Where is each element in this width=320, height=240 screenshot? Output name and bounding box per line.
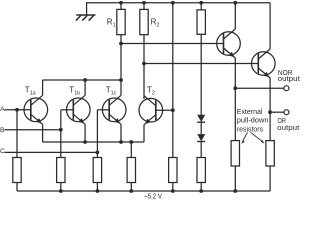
resistor RE (emitter current source) bbox=[127, 158, 135, 183]
node P2: R2 / T4 base tap bbox=[142, 62, 146, 66]
node: collector rail / T1c collector junction bbox=[119, 78, 123, 82]
label R1 bbox=[107, 18, 116, 29]
wire: T1c base drop to input C bbox=[96, 110, 98, 153]
wire: R8 bottom lead bbox=[200, 183, 202, 192]
ground bbox=[76, 15, 96, 21]
label T2 bbox=[147, 86, 155, 97]
node: emitter rail / T1b junction bbox=[83, 140, 87, 144]
resistor R10 (external OR pull-down) bbox=[266, 141, 274, 166]
wire: VCC (ground) top rail bbox=[87, 2, 271, 4]
node: B junction bbox=[59, 128, 63, 132]
node: bottom rail / R7 junction bbox=[171, 189, 175, 193]
resistor R4 (input A pull-down) bbox=[13, 158, 21, 183]
wire: VBB bias line from top rail to R5 bbox=[172, 3, 174, 158]
label input A bbox=[0, 106, 5, 113]
wire: R4 bottom lead bbox=[16, 183, 18, 192]
wire: T1b collector riser bbox=[84, 80, 86, 95]
transistor T2 (reference, mirrored) bbox=[139, 96, 163, 125]
wire: C pull-down drop bbox=[96, 152, 98, 157]
wire: VEE -5.2V bottom rail bbox=[17, 190, 270, 192]
wire: RE drop bbox=[130, 142, 132, 158]
wire: T1a collector riser bbox=[42, 80, 44, 95]
transistor T3 (NOR emitter follower) bbox=[217, 29, 241, 58]
wire: T3 emitter drop to NOR node bbox=[234, 58, 236, 88]
wire: R1 bottom lead to node P1 bbox=[120, 35, 122, 44]
svg-text:output: output bbox=[278, 74, 300, 83]
svg-text:–5.2 V: –5.2 V bbox=[144, 192, 163, 201]
wire: T1c emitter drop bbox=[120, 124, 122, 142]
wire: node P1 down to input collector rail bbox=[120, 44, 122, 81]
label R2 bbox=[151, 18, 160, 29]
wire: R2 bottom lead down to T2 collector bbox=[143, 35, 145, 99]
wire: T4 collector riser bbox=[269, 3, 271, 49]
node: top rail / R3 junction bbox=[199, 1, 203, 5]
label input C bbox=[0, 148, 5, 155]
node NOR: junction bbox=[233, 86, 237, 90]
wire: T2 base lead to VBB bbox=[156, 109, 173, 111]
wire: node P2 to T4 base bbox=[144, 63, 258, 65]
diode D2 bbox=[197, 134, 205, 141]
node P1: R1 bottom / NOR drive junction bbox=[119, 42, 123, 46]
resistor R6 (input C pull-down) bbox=[93, 158, 101, 183]
svg-text:T1c: T1c bbox=[106, 86, 117, 97]
svg-text:R2: R2 bbox=[151, 18, 160, 29]
wire: A pull-down drop bbox=[16, 110, 18, 158]
terminal: OR output bbox=[284, 110, 289, 115]
resistor R2 bbox=[140, 9, 148, 34]
wire: RE bottom lead bbox=[130, 183, 132, 192]
wire: input C lead bbox=[5, 151, 98, 153]
svg-text:T1a: T1a bbox=[25, 86, 36, 97]
node: A / pull-down junction bbox=[15, 108, 19, 112]
label T1a bbox=[25, 86, 36, 97]
wire: input A lead bbox=[5, 109, 31, 111]
svg-text:resistors: resistors bbox=[237, 124, 264, 133]
node: top rail / T3 collector junction bbox=[233, 1, 237, 5]
node: collector rail / T1b collector junction bbox=[83, 78, 87, 82]
label OR output bbox=[277, 116, 299, 132]
wire: T1b base lead bbox=[61, 109, 74, 111]
node: top rail / R2 junction bbox=[142, 1, 146, 5]
terminal: NOR output bbox=[284, 86, 289, 91]
wire: R3 top lead bbox=[200, 3, 202, 10]
wire: T1a emitter drop bbox=[42, 124, 44, 142]
svg-text:B: B bbox=[0, 127, 5, 134]
svg-text:A: A bbox=[0, 106, 5, 113]
node: C junction bbox=[96, 151, 100, 155]
node: bottom rail / R8 junction bbox=[199, 189, 203, 193]
resistor R1 bbox=[117, 9, 125, 34]
wire: common emitter rail bbox=[43, 141, 144, 143]
label T1c bbox=[106, 86, 117, 97]
resistor R5 (input B pull-down) bbox=[57, 158, 65, 183]
wire: R1 top lead bbox=[120, 3, 122, 10]
node: top rail / R1 junction bbox=[119, 1, 123, 5]
wire: OR node down to R8 bbox=[269, 112, 271, 140]
wire: R10 bottom lead bbox=[269, 166, 271, 191]
node: bottom rail / R9 junction bbox=[233, 189, 237, 193]
node: VBB / T2 base junction bbox=[171, 108, 175, 112]
wire: NOR output lead bbox=[235, 87, 283, 89]
resistor R8 (diode chain lower) bbox=[197, 158, 205, 183]
wire: T1b base drop to input B bbox=[60, 110, 62, 130]
node: emitter rail / T1c junction bbox=[119, 140, 123, 144]
wire: R9 bottom lead bbox=[234, 166, 236, 191]
node: emitter rail / RE junction bbox=[129, 140, 133, 144]
wire: input B lead bbox=[5, 129, 61, 131]
wire: node P1 to T3 base bbox=[121, 43, 224, 45]
wire: R2 top lead bbox=[143, 3, 145, 10]
wire: D2 to R6 bbox=[200, 142, 202, 158]
node: bottom rail / R6 junction bbox=[96, 189, 100, 193]
svg-text:output: output bbox=[277, 123, 299, 132]
wire: B pull-down drop bbox=[60, 130, 62, 158]
resistor R3 (bias) bbox=[197, 10, 205, 34]
resistor R9 (external NOR pull-down) bbox=[231, 141, 239, 166]
node OR: junction bbox=[268, 110, 272, 114]
transistor T1a bbox=[24, 95, 48, 124]
svg-text:T2: T2 bbox=[147, 86, 155, 97]
wire: T2 emitter drop bbox=[143, 125, 145, 142]
wire: NOR node down to R7 bbox=[234, 88, 236, 140]
wire: R3 bottom lead down to diode D1 bbox=[200, 34, 202, 115]
label T1b bbox=[69, 86, 80, 97]
wire: ground riser bbox=[86, 2, 88, 15]
label NOR output bbox=[278, 68, 300, 83]
wire: input collector rail bbox=[43, 79, 121, 81]
wire: R7 bottom lead bbox=[172, 183, 174, 192]
transistor T1c bbox=[102, 95, 126, 124]
node: bottom rail / RE junction bbox=[129, 189, 133, 193]
transistor T4 (OR emitter follower) bbox=[251, 49, 275, 78]
wire: OR output lead bbox=[270, 111, 284, 113]
node: bottom rail / R5 junction bbox=[59, 189, 63, 193]
wire: R5 bottom lead bbox=[60, 183, 62, 192]
wire: T1c base lead bbox=[97, 109, 109, 111]
label: external pull-down resistors note bbox=[237, 107, 269, 133]
node: top rail / VBB junction bbox=[171, 1, 175, 5]
wire: D1 to D2 bbox=[200, 122, 202, 134]
annotation arrow to R10 bbox=[251, 132, 265, 143]
resistor R7 (VBB bias lower) bbox=[169, 158, 177, 183]
wire: T4 emitter drop to OR node bbox=[269, 78, 271, 112]
svg-text:C: C bbox=[0, 148, 5, 155]
diode D1 bbox=[197, 115, 205, 122]
svg-text:R1: R1 bbox=[107, 18, 116, 29]
wire: T1b emitter drop bbox=[84, 124, 86, 142]
label -5.2 V supply bbox=[144, 192, 163, 201]
annotation arrow to R9 bbox=[241, 132, 247, 144]
wire: R6 bottom lead bbox=[96, 183, 98, 192]
transistor T1b bbox=[67, 95, 91, 124]
svg-text:T1b: T1b bbox=[69, 86, 80, 97]
wire: T1c collector riser bbox=[120, 80, 122, 95]
label input B bbox=[0, 127, 5, 134]
wire: T3 collector riser bbox=[234, 3, 236, 29]
